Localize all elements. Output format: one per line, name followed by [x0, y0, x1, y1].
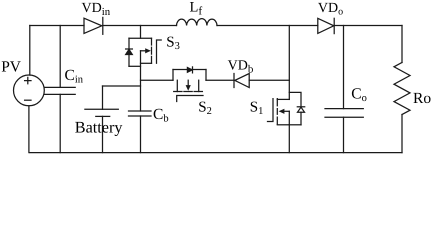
transistor S3 body diode — [128, 38, 130, 49]
transistor S3 body loop bottom — [129, 65, 141, 67]
transistor S1 body branch bottom — [289, 124, 301, 126]
transistor S2 body loop right — [205, 70, 207, 81]
wire battery to junction — [103, 85, 141, 87]
wire top rail left segment — [30, 25, 84, 27]
PV source V1 — [29, 26, 31, 76]
transistor S3 channel — [151, 38, 153, 63]
transistor S2 source tick — [198, 80, 200, 91]
svg-text:S2: S2 — [198, 100, 212, 118]
svg-text:Lf: Lf — [190, 0, 203, 18]
capacitor Co — [343, 26, 345, 109]
capacitor Cin — [59, 26, 61, 88]
diode VDb — [235, 74, 249, 88]
svg-text:VDo: VDo — [318, 1, 343, 18]
transistor S2 arrow — [187, 80, 189, 85]
svg-text:S3: S3 — [166, 34, 180, 52]
svg-text:Ro: Ro — [413, 90, 431, 107]
transistor S2 body loop top — [173, 69, 206, 71]
svg-text:Battery: Battery — [75, 118, 124, 136]
svg-text:VDb: VDb — [228, 59, 254, 76]
inductor Lf — [177, 19, 218, 26]
wire bottom rail — [30, 152, 402, 154]
wire S2 left — [141, 79, 174, 81]
svg-text:Co: Co — [351, 85, 367, 104]
transistor S3 source lead — [141, 62, 152, 64]
capacitor Cb — [129, 110, 152, 112]
transistor S1 body diode — [297, 106, 304, 108]
transistor S3 drain lead / body loop top — [129, 37, 152, 39]
wire VDb to S1 — [249, 79, 289, 81]
diode VDin — [84, 18, 102, 33]
svg-text:PV: PV — [1, 58, 22, 75]
diode VDo — [318, 18, 334, 33]
svg-text:S1: S1 — [250, 100, 264, 118]
transistor S1 source vertical — [288, 111, 290, 152]
svg-text:Cin: Cin — [65, 67, 84, 86]
transistor S1 channel — [276, 99, 278, 125]
transistor S3 gate — [157, 40, 162, 63]
transistor S1 source lead — [277, 124, 289, 126]
resistor Ro — [401, 26, 403, 63]
svg-text:Cb: Cb — [153, 106, 169, 125]
transistor S3 source vertical — [140, 51, 142, 111]
transistor S3 arrow — [141, 50, 146, 52]
wire S2 to VDb — [206, 79, 234, 81]
transistor S1 drain lead — [277, 98, 289, 100]
transistor S3 drain wire — [140, 26, 142, 39]
wire top rail right segment — [334, 25, 402, 27]
transistor S2 body diode — [187, 68, 192, 73]
transistor S1 drain vertical — [288, 26, 290, 100]
wire top rail middle segment — [103, 25, 177, 27]
transistor S2 drain tick — [176, 80, 178, 91]
transistor S1 gate — [268, 99, 274, 122]
transistor S2 gate — [177, 96, 203, 102]
battery — [102, 86, 104, 109]
transistor S1 body branch top — [289, 92, 301, 106]
transistor S2 body loop left — [172, 70, 174, 81]
transistor S1 arrow — [284, 110, 289, 112]
transistor S2 channel — [174, 91, 203, 93]
svg-text:VDin: VDin — [82, 1, 111, 18]
wire top rail right of inductor — [217, 25, 318, 27]
